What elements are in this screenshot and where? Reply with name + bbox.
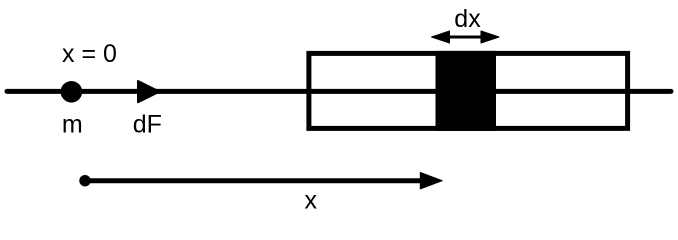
svg-text:x = 0: x = 0 xyxy=(62,40,117,68)
force arrow dF head xyxy=(138,81,160,102)
svg-text:x: x xyxy=(305,186,318,214)
svg-text:m: m xyxy=(62,110,83,138)
node m: point mass dot xyxy=(61,81,83,103)
rod rectangle xyxy=(309,53,628,128)
measurement arrow x: start dot xyxy=(79,175,90,186)
mass element dx: black block xyxy=(436,51,497,131)
dimension arrow dx (double-headed) xyxy=(432,31,500,43)
svg-text:dF: dF xyxy=(133,110,162,138)
svg-text:dx: dx xyxy=(454,5,481,33)
measurement arrow x: head xyxy=(420,173,442,189)
wire: main horizontal axis line xyxy=(7,89,671,94)
measurement arrow x: shaft xyxy=(85,178,422,183)
